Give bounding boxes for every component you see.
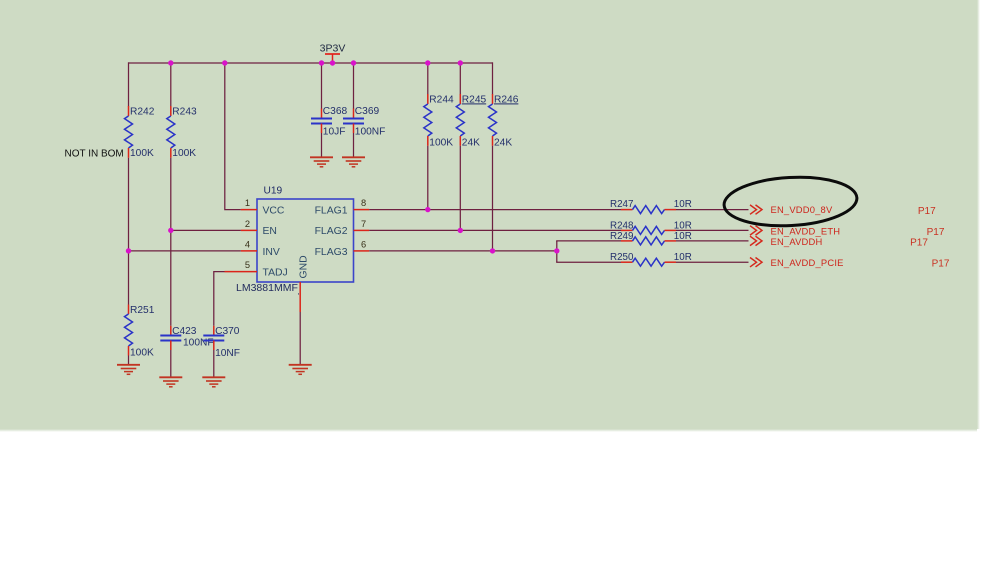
svg-text:100K: 100K xyxy=(130,148,154,159)
wire FLAG1 to R247 xyxy=(369,209,621,211)
svg-text:EN_AVDD_PCIE: EN_AVDD_PCIE xyxy=(771,257,844,268)
resistor R249 xyxy=(610,231,692,245)
svg-text:R244: R244 xyxy=(429,94,454,105)
svg-text:7: 7 xyxy=(361,219,366,229)
svg-text:C370: C370 xyxy=(215,326,240,337)
junction on rail at VCC branch xyxy=(222,60,227,65)
svg-text:R248: R248 xyxy=(610,221,634,232)
wire INV from R242 xyxy=(129,250,241,252)
svg-text:6: 6 xyxy=(361,240,366,250)
svg-text:8: 8 xyxy=(361,198,366,208)
pin 1 stub VCC xyxy=(241,209,257,211)
junction on rail at R244 xyxy=(425,60,430,65)
svg-text:TADJ: TADJ xyxy=(263,268,288,279)
wire R246 to FLAG3 junction xyxy=(492,146,494,251)
svg-text:100K: 100K xyxy=(130,348,154,359)
svg-text:2: 2 xyxy=(245,219,250,229)
pin 5 stub TADJ xyxy=(225,271,258,273)
svg-text:1: 1 xyxy=(245,198,250,208)
junction on rail at C369 xyxy=(351,60,356,65)
wire R248 to port xyxy=(676,229,749,231)
svg-text:FLAG3: FLAG3 xyxy=(315,247,348,258)
svg-text:4: 4 xyxy=(245,240,250,250)
svg-text:R247: R247 xyxy=(610,199,633,210)
junction on rail at R245 xyxy=(458,60,463,65)
ground under C369 xyxy=(342,157,365,167)
svg-text:100K: 100K xyxy=(429,137,453,148)
wire C423 to ground xyxy=(170,350,172,377)
svg-text:P17: P17 xyxy=(918,206,936,217)
wire C368 to ground xyxy=(321,133,323,157)
svg-text:10R: 10R xyxy=(674,252,692,263)
capacitor C370 xyxy=(203,326,240,359)
wire R243 to EN junction xyxy=(170,158,172,231)
junction FLAG1 at R244 xyxy=(425,207,430,212)
svg-text:VCC: VCC xyxy=(263,205,285,216)
wire R243 branch top xyxy=(170,63,172,107)
wire R244 branch top xyxy=(427,63,429,95)
text part value LM3881MMF xyxy=(236,282,301,296)
resistor R247 xyxy=(610,199,692,214)
svg-text:3P3V: 3P3V xyxy=(320,42,346,54)
pin 8 stub FLAG1 xyxy=(354,209,370,211)
wire TADJ to C370 xyxy=(214,272,225,326)
ground under R251 xyxy=(117,365,140,375)
wire VCC branch xyxy=(225,63,241,210)
svg-text:C423: C423 xyxy=(172,326,197,337)
wire INV junction to R251 xyxy=(128,251,130,305)
svg-text:NOT IN BOM: NOT IN BOM xyxy=(65,148,124,159)
wire GND pin to ground xyxy=(299,312,301,365)
wire R247 to port xyxy=(676,209,749,211)
junction on rail at R243 xyxy=(168,60,173,65)
junction on rail at power stem xyxy=(330,60,335,65)
wire R244 to FLAG1 junction xyxy=(427,146,429,210)
wire EN junction to C423 xyxy=(170,230,172,325)
svg-text:10NF: 10NF xyxy=(215,348,240,359)
wire R242 to INV junction xyxy=(128,158,130,251)
junction FLAG3 at R246 xyxy=(490,248,495,253)
svg-text:R246: R246 xyxy=(494,94,519,105)
svg-text:24K: 24K xyxy=(462,137,480,148)
capacitor C369 xyxy=(343,106,385,138)
resistor R251 xyxy=(125,305,155,359)
wire C369 to ground xyxy=(353,133,355,157)
svg-text:100NF: 100NF xyxy=(183,337,214,348)
svg-text:FLAG2: FLAG2 xyxy=(315,226,348,237)
svg-text:R242: R242 xyxy=(130,106,155,117)
junction on rail at C368 xyxy=(319,60,324,65)
resistor R243 xyxy=(167,106,197,159)
svg-text:R250: R250 xyxy=(610,252,634,263)
resistor R245 xyxy=(456,94,486,148)
power symbol 3P3V xyxy=(320,42,346,63)
svg-text:10R: 10R xyxy=(674,199,692,210)
port chevron EN_AVDDH xyxy=(750,236,822,247)
wire R246 branch top xyxy=(492,62,494,94)
junction EN at R243 xyxy=(168,228,173,233)
pin 4 stub INV xyxy=(241,250,257,252)
ground under C368 xyxy=(310,157,333,167)
svg-text:R251: R251 xyxy=(130,305,155,316)
wire FLAG2 to R248 xyxy=(369,229,621,231)
svg-text:P17: P17 xyxy=(910,238,928,249)
wire EN from R243 xyxy=(171,229,241,231)
resistor R244 xyxy=(424,94,454,148)
ground under C423 xyxy=(159,377,182,387)
port chevron EN_AVDD_ETH xyxy=(750,225,840,236)
svg-text:EN: EN xyxy=(263,226,277,237)
wire R245 branch top xyxy=(459,63,461,95)
svg-text:GND: GND xyxy=(299,255,310,278)
wire R242 branch top xyxy=(128,62,130,106)
ground at U19 GND pin xyxy=(289,365,312,375)
svg-text:24K: 24K xyxy=(494,137,512,148)
svg-text:P17: P17 xyxy=(932,259,950,270)
pin 7 stub FLAG2 xyxy=(354,229,370,231)
wire tee to R250 xyxy=(557,261,621,264)
svg-text:100K: 100K xyxy=(172,148,196,159)
wire R245 to FLAG2 junction xyxy=(459,146,461,231)
svg-text:R249: R249 xyxy=(610,231,633,242)
port chevron EN_VDD0_8V xyxy=(750,204,833,215)
capacitor C423 xyxy=(160,326,213,350)
svg-text:C368: C368 xyxy=(323,106,348,117)
port chevron EN_AVDD_PCIE xyxy=(750,257,844,268)
svg-text:5: 5 xyxy=(245,260,250,270)
wire C370 to ground xyxy=(213,350,215,377)
resistor R246 xyxy=(489,94,519,148)
svg-text:100NF: 100NF xyxy=(355,126,386,137)
pin 6 stub FLAG3 xyxy=(354,250,370,252)
wire tee to R249 xyxy=(557,240,621,243)
wire FLAG3 to tee xyxy=(369,250,557,252)
svg-text:R245: R245 xyxy=(462,94,487,105)
svg-text:U19: U19 xyxy=(264,185,283,196)
svg-text:FLAG1: FLAG1 xyxy=(315,205,348,216)
wire R249 to port xyxy=(676,240,749,242)
resistor R242 xyxy=(125,106,155,159)
pin 2 stub EN xyxy=(241,229,257,231)
svg-text:EN_AVDDH: EN_AVDDH xyxy=(771,236,823,247)
wire C369 branch xyxy=(353,63,355,109)
wire C368 branch xyxy=(321,63,323,109)
svg-text:EN_VDD0_8V: EN_VDD0_8V xyxy=(771,204,833,215)
wire 3P3V rail xyxy=(129,62,493,64)
svg-text:C369: C369 xyxy=(355,106,380,117)
capacitor C368 xyxy=(311,106,347,138)
junction INV at R242 xyxy=(126,248,131,253)
wire R251 to ground xyxy=(128,356,130,365)
op-amp U19 body xyxy=(257,185,354,282)
wire tee vertical xyxy=(556,241,558,262)
ground under C370 xyxy=(202,377,225,387)
GND pin stub xyxy=(299,282,301,312)
annotation ellipse around EN_VDD0_8V xyxy=(723,174,858,229)
junction FLAG2 at R245 xyxy=(458,228,463,233)
svg-text:INV: INV xyxy=(263,247,280,258)
svg-text:LM3881MMF: LM3881MMF xyxy=(236,282,298,294)
resistor R248 xyxy=(610,221,692,235)
svg-text:P17: P17 xyxy=(927,227,945,238)
junction FLAG3 tee xyxy=(554,248,559,253)
svg-text:R243: R243 xyxy=(172,106,197,117)
wire R250 to port xyxy=(676,261,749,263)
svg-text:10JF: 10JF xyxy=(323,126,346,137)
resistor R250 xyxy=(610,252,692,266)
